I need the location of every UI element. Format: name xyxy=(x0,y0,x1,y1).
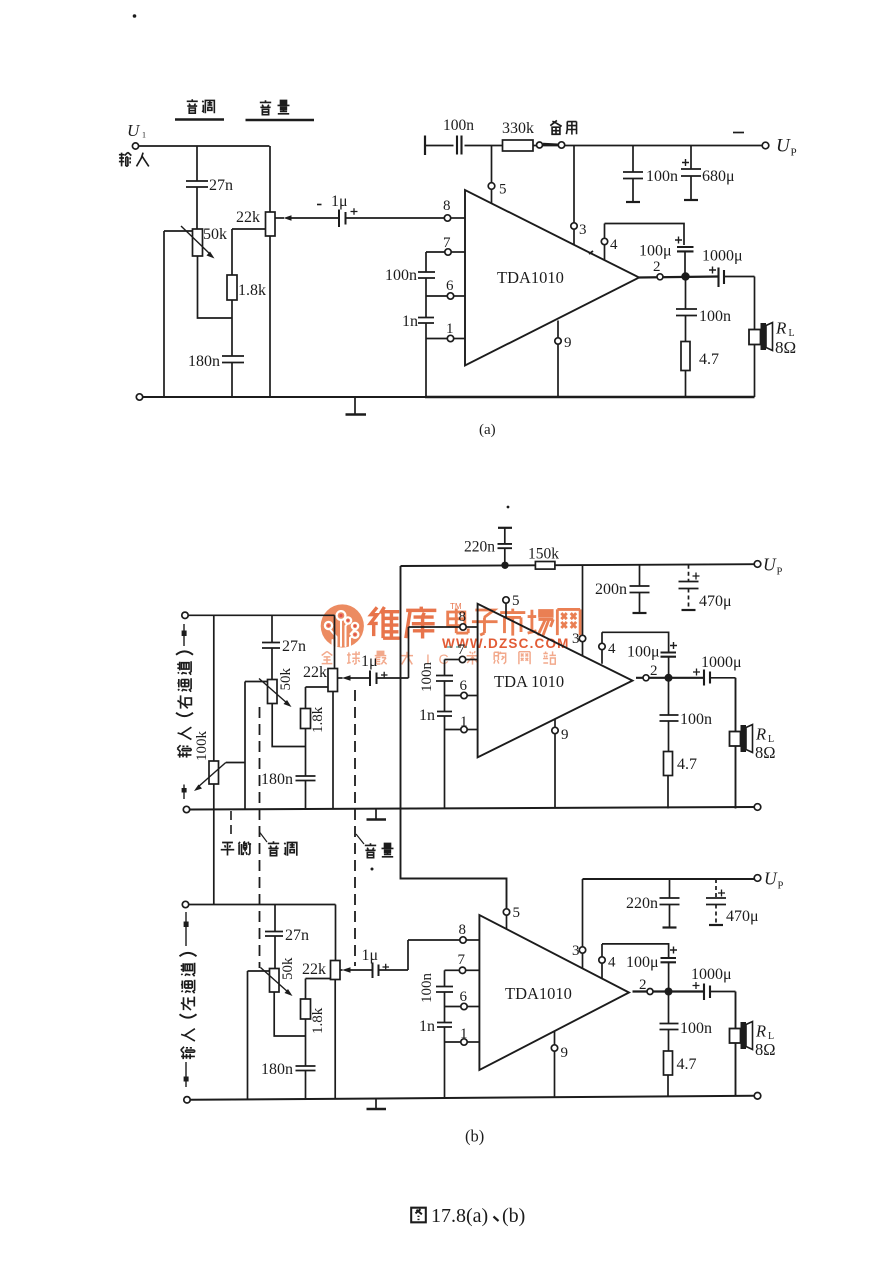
top supply rail xyxy=(425,145,765,147)
svg-text:100n: 100n xyxy=(680,711,712,728)
svg-text:4.7: 4.7 xyxy=(677,756,697,773)
wire 1.8k branch xyxy=(231,229,233,356)
label 输入（左通道） vertical xyxy=(185,912,187,946)
svg-text:1μ: 1μ xyxy=(361,653,378,670)
svg-text:100n: 100n xyxy=(646,168,678,185)
svg-text:3: 3 xyxy=(572,631,580,647)
pin 6 xyxy=(426,278,447,296)
svg-text:R: R xyxy=(775,319,787,338)
capacitor 220n xyxy=(498,544,513,548)
capacitor 1000u xyxy=(719,268,725,288)
wire left branch xyxy=(164,231,193,397)
input terminal xyxy=(132,143,138,149)
speck xyxy=(371,868,374,871)
svg-text:180n: 180n xyxy=(261,1061,293,1078)
pin 1 xyxy=(445,716,461,730)
wiper arrow 22k xyxy=(275,217,285,219)
capacitor 1u xyxy=(339,210,346,228)
capacitor 100n series top xyxy=(454,141,465,150)
pin 6 xyxy=(445,681,461,696)
capacitor 100n pin7 (rotated label) xyxy=(444,660,446,676)
svg-text:100k: 100k xyxy=(194,731,210,762)
wire below 50k xyxy=(274,992,305,1036)
dashed link 音量 xyxy=(354,690,356,966)
svg-text:180n: 180n xyxy=(188,353,220,370)
svg-text:22k: 22k xyxy=(302,961,326,978)
wiper arrow 22k xyxy=(338,677,343,679)
label 音量 (volume) xyxy=(246,100,315,120)
wire 1.8k to 22k xyxy=(232,228,266,230)
speaker RL 8ohm xyxy=(749,330,761,345)
svg-text:1: 1 xyxy=(446,321,454,337)
bottom rail right channel xyxy=(183,806,189,812)
capacitor 680u xyxy=(690,146,692,169)
svg-text:22k: 22k xyxy=(236,209,260,226)
svg-text:6: 6 xyxy=(446,278,454,294)
svg-text:200n: 200n xyxy=(595,581,627,598)
feedback loop wire xyxy=(605,224,685,246)
svg-text:1000μ: 1000μ xyxy=(701,654,742,671)
dashed link 音调 xyxy=(259,707,261,968)
wire 1u to pin 8 xyxy=(379,940,460,970)
wiper arrow 22k xyxy=(340,969,343,971)
pin 4 xyxy=(601,238,607,244)
capacitor 100n pin7 xyxy=(425,252,427,272)
capacitor 470u xyxy=(715,879,717,898)
input terminal top xyxy=(182,612,188,618)
label 音调 xyxy=(260,832,268,842)
capacitor 100n bypass xyxy=(632,146,634,172)
wire below 50k xyxy=(198,256,233,318)
svg-text:6: 6 xyxy=(460,989,468,1005)
svg-text:1: 1 xyxy=(142,131,146,140)
svg-text:4: 4 xyxy=(610,237,618,253)
scan speck mid-page xyxy=(507,506,510,509)
svg-text:1.8k: 1.8k xyxy=(310,706,326,733)
label 输入（右通道） vertical xyxy=(183,624,185,646)
output wire pin 2 xyxy=(639,277,719,278)
wire pin column down xyxy=(444,730,446,809)
svg-text:5: 5 xyxy=(499,182,507,198)
potentiometer 50k xyxy=(245,681,268,683)
wire to speaker xyxy=(754,277,756,398)
pin 1 xyxy=(445,1027,461,1042)
svg-text:100n: 100n xyxy=(419,662,435,693)
capacitor 100u xyxy=(677,247,694,251)
bottom rail left channel xyxy=(184,1097,190,1103)
wire 1u to pin 8 xyxy=(377,627,460,678)
capacitor 27n xyxy=(186,181,208,187)
svg-text:4: 4 xyxy=(608,641,616,657)
svg-text:27n: 27n xyxy=(209,177,233,194)
potentiometer 50k xyxy=(248,970,270,972)
wire to speaker xyxy=(735,992,737,1097)
svg-text:470μ: 470μ xyxy=(726,908,759,925)
pin 7 xyxy=(445,969,460,971)
svg-text:100n: 100n xyxy=(699,308,731,325)
svg-text:1n: 1n xyxy=(402,313,418,330)
svg-text:100n: 100n xyxy=(419,973,435,1004)
svg-text:7: 7 xyxy=(443,235,451,251)
svg-text:7: 7 xyxy=(458,952,466,968)
capacitor 100u xyxy=(661,958,677,962)
svg-text:1n: 1n xyxy=(419,707,435,724)
wire input top xyxy=(139,145,270,147)
capacitor 100n pin7 xyxy=(444,970,446,986)
capacitor 180n xyxy=(222,356,244,363)
bottom ground rail xyxy=(136,394,142,400)
图 17.8(a)、(b) xyxy=(411,1208,426,1223)
电子市场网 outlined chars xyxy=(448,609,580,636)
potentiometer 22k xyxy=(331,961,341,980)
dashed link 平衡 xyxy=(230,811,232,838)
teal scan artifacts xyxy=(412,605,478,647)
pin 6 xyxy=(445,992,461,1007)
wire rail-left down to lower channel xyxy=(401,566,507,909)
op-amp TDA1010 left channel xyxy=(479,915,629,1070)
pin 8 xyxy=(460,937,466,943)
wire 27n branch xyxy=(196,146,198,231)
tick mark on edge xyxy=(589,251,593,254)
pin 7 xyxy=(426,251,445,253)
ground symbol xyxy=(375,809,377,819)
feedback loop xyxy=(602,632,669,652)
svg-text:1μ: 1μ xyxy=(331,193,348,210)
svg-text:U: U xyxy=(776,136,791,157)
pin 3 xyxy=(582,565,584,635)
svg-text:680μ: 680μ xyxy=(702,168,735,185)
svg-text:TDA 1010: TDA 1010 xyxy=(494,672,564,691)
svg-text:1μ: 1μ xyxy=(362,947,379,964)
svg-text:50k: 50k xyxy=(203,226,227,243)
label 音调 (tone) xyxy=(175,99,224,119)
capacitor 470u xyxy=(688,565,690,581)
svg-text:5: 5 xyxy=(512,593,520,609)
svg-text:(b): (b) xyxy=(502,1205,525,1227)
svg-text:27n: 27n xyxy=(282,638,306,655)
speaker RL 8ohm xyxy=(730,1029,741,1044)
capacitor 1u xyxy=(370,671,377,687)
svg-text:TDA1010: TDA1010 xyxy=(497,268,564,287)
svg-text:2: 2 xyxy=(650,663,658,679)
capacitor 1n xyxy=(425,296,427,317)
capacitor 27n xyxy=(274,905,276,932)
capacitor 100n output xyxy=(685,277,687,309)
svg-text:100μ: 100μ xyxy=(639,243,672,260)
svg-text:27n: 27n xyxy=(285,927,309,944)
supply rail xyxy=(401,564,755,566)
svg-text:3: 3 xyxy=(572,943,580,959)
logo circle xyxy=(321,604,364,647)
resistor 150k xyxy=(535,562,555,570)
svg-text:100μ: 100μ xyxy=(626,954,659,971)
svg-text:3: 3 xyxy=(579,222,587,238)
potentiometer 50k xyxy=(193,229,203,256)
svg-text:1000μ: 1000μ xyxy=(702,248,743,265)
resistor 4.7 xyxy=(664,1051,673,1075)
svg-text:150k: 150k xyxy=(528,546,559,563)
label 输入 xyxy=(119,152,149,166)
node xyxy=(665,674,673,682)
wire 1u to pin8 xyxy=(346,217,445,219)
wire 50k-left vertical xyxy=(244,682,246,809)
pin 9 xyxy=(557,321,559,398)
svg-text:8Ω: 8Ω xyxy=(755,743,776,762)
svg-text:50k: 50k xyxy=(278,668,294,691)
svg-text:1.8k: 1.8k xyxy=(310,1007,326,1034)
scan speck xyxy=(733,132,744,134)
terminal UP xyxy=(762,142,769,149)
capacitor 27n xyxy=(271,615,273,642)
pin 1 xyxy=(426,323,447,339)
potentiometer 100k xyxy=(213,615,215,761)
resistor 4.7 xyxy=(681,342,690,371)
ground symbol xyxy=(375,1099,377,1108)
svg-text:100μ: 100μ xyxy=(627,644,660,661)
svg-text:R: R xyxy=(755,725,766,744)
capacitor 200n xyxy=(639,565,641,586)
wire 50k-left vertical xyxy=(247,971,249,1099)
resistor 1.8k xyxy=(227,275,237,300)
svg-text:1000μ: 1000μ xyxy=(691,966,732,983)
ground top xyxy=(498,527,512,529)
svg-text:9: 9 xyxy=(561,1045,569,1061)
capacitor 1n xyxy=(444,696,446,712)
svg-text:330k: 330k xyxy=(502,120,534,137)
svg-text:4.7: 4.7 xyxy=(699,351,719,368)
logo white traces xyxy=(331,621,355,646)
wire pin1 column to ground rail xyxy=(425,339,427,398)
svg-text:4.7: 4.7 xyxy=(677,1056,697,1073)
output wire pin 2 xyxy=(636,677,704,679)
svg-text:U: U xyxy=(127,121,141,140)
svg-text:8: 8 xyxy=(459,922,467,938)
svg-text:R: R xyxy=(755,1022,766,1041)
svg-text:TDA1010: TDA1010 xyxy=(505,984,572,1003)
resistor 330k xyxy=(503,140,534,151)
ground symbol xyxy=(354,397,356,414)
capacitor 100n output xyxy=(668,678,670,715)
potentiometer 22k xyxy=(269,146,271,397)
svg-text:8: 8 xyxy=(443,198,451,214)
svg-text:P: P xyxy=(791,147,797,159)
op-amp TDA1010 triangle xyxy=(465,190,639,366)
svg-text:50k: 50k xyxy=(280,957,296,980)
svg-text:2: 2 xyxy=(639,977,647,993)
维库 big solid chars xyxy=(370,607,436,639)
pin 4 xyxy=(599,643,605,649)
svg-text:220n: 220n xyxy=(464,539,495,556)
node output xyxy=(681,272,689,280)
feedback loop xyxy=(602,944,669,958)
svg-text:4: 4 xyxy=(608,955,616,971)
svg-text:100n: 100n xyxy=(443,117,474,134)
svg-text:180n: 180n xyxy=(261,771,293,788)
svg-text:(a): (a) xyxy=(479,422,496,438)
resistor 1.8k xyxy=(306,979,331,1000)
svg-text:1.8k: 1.8k xyxy=(238,282,266,299)
svg-text:1: 1 xyxy=(460,1026,468,1042)
capacitor 1000u xyxy=(704,984,710,1001)
svg-text:5: 5 xyxy=(513,905,521,921)
bottom pale row 全球最大IC采购网站 xyxy=(322,651,556,664)
capacitor 180n xyxy=(296,1066,316,1071)
svg-text:220n: 220n xyxy=(626,895,658,912)
capacitor 180n xyxy=(296,776,316,781)
svg-text:9: 9 xyxy=(564,335,572,351)
svg-text:U: U xyxy=(764,869,778,889)
svg-text:1n: 1n xyxy=(419,1018,435,1035)
label 平衡 xyxy=(221,841,251,855)
pin 8 xyxy=(444,215,450,221)
op-amp TDA1010 right channel xyxy=(478,604,633,758)
terminal UP xyxy=(754,561,761,568)
svg-text:8: 8 xyxy=(459,609,467,625)
wire below 50k xyxy=(272,704,305,747)
pin 4 xyxy=(599,957,605,963)
svg-text:8Ω: 8Ω xyxy=(755,1040,776,1059)
capacitor 1n xyxy=(444,1007,446,1023)
wire to speaker xyxy=(735,678,737,809)
svg-text:17.8(a): 17.8(a) xyxy=(431,1205,488,1227)
capacitor 100n output xyxy=(668,992,670,1024)
svg-text:6: 6 xyxy=(460,678,468,694)
svg-text:100n: 100n xyxy=(680,1020,712,1037)
svg-text:8Ω: 8Ω xyxy=(775,338,796,357)
capacitor 100u xyxy=(661,653,677,657)
pin 5 xyxy=(491,146,493,183)
svg-text:U: U xyxy=(763,555,777,575)
wire input xyxy=(188,615,334,668)
potentiometer 22k xyxy=(328,669,338,692)
resistor 4.7 xyxy=(664,752,673,776)
svg-text:2: 2 xyxy=(653,259,661,275)
svg-text:22k: 22k xyxy=(303,664,327,681)
svg-text:P: P xyxy=(778,881,784,892)
pin 5 xyxy=(503,909,509,915)
svg-text:P: P xyxy=(777,567,783,578)
svg-text:7: 7 xyxy=(458,642,466,658)
wiper 100k xyxy=(226,762,245,764)
resistor 1.8k xyxy=(306,687,331,709)
pin 5 xyxy=(503,597,509,603)
pin 3 xyxy=(582,879,584,947)
capacitor 1000u xyxy=(704,670,710,686)
label 音量 xyxy=(356,834,364,844)
svg-text:100n: 100n xyxy=(385,267,417,284)
svg-text:(b): (b) xyxy=(465,1127,484,1146)
supply rail xyxy=(583,878,755,880)
svg-text:470μ: 470μ xyxy=(699,593,732,610)
pin 9 xyxy=(554,719,556,809)
pin 9 xyxy=(554,1031,556,1097)
switch 备用 (spare) xyxy=(537,142,543,148)
capacitor 1u xyxy=(373,963,379,979)
pin 7 xyxy=(445,659,460,661)
input terminal xyxy=(182,901,188,907)
speaker RL 8ohm xyxy=(730,732,741,747)
pin 3 xyxy=(573,146,575,223)
wire pin column down xyxy=(444,1042,446,1098)
capacitor 220n xyxy=(669,879,671,898)
pin 8 xyxy=(460,624,466,630)
output wire pin 2 xyxy=(633,990,705,992)
svg-text:9: 9 xyxy=(561,727,569,743)
node xyxy=(665,988,673,996)
svg-text:1: 1 xyxy=(460,714,468,730)
junction xyxy=(501,562,508,569)
